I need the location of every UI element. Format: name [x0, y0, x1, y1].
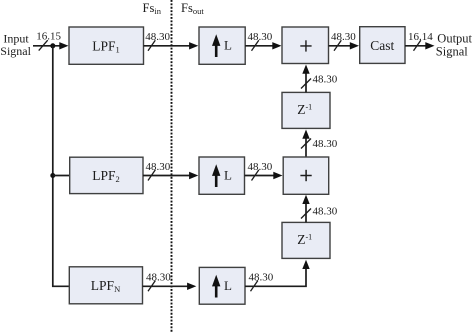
arrowhead up into A2 [302, 195, 309, 204]
bus slash after LPFN [148, 281, 155, 292]
node: junction at LPF2 branch [50, 173, 55, 178]
svg-text:L: L [224, 37, 232, 52]
LPF2 block [70, 157, 143, 193]
arrowhead into A1 [272, 42, 281, 49]
svg-text:48.30: 48.30 [146, 272, 171, 284]
upsampler U3 [199, 267, 245, 304]
wire: U1 to adder A1 [245, 45, 276, 47]
label: Output Signal [436, 31, 473, 58]
arrowhead into A2 [273, 172, 282, 179]
bus slash on input wire [39, 40, 48, 50]
delay Z2 [282, 222, 330, 258]
bus slash after A1 [334, 40, 341, 51]
upsampler U1 (up-arrow L) [199, 27, 245, 64]
label: Input Signal [0, 32, 31, 58]
arrowhead output [425, 42, 434, 49]
bus slash after LPF1 [148, 40, 155, 51]
arrowhead into U1 [189, 42, 198, 49]
wire: LPFN to upsampler U3 [143, 285, 192, 287]
svg-text:48.30: 48.30 [248, 31, 273, 43]
LPFN block [69, 267, 142, 304]
svg-text:Output: Output [437, 31, 472, 45]
node: input junction [50, 43, 55, 48]
wire: LPF1 to upsampler U1 [144, 45, 194, 47]
wire: Z1 up to adder A1 [305, 70, 307, 93]
adder A2 [283, 157, 329, 194]
arrowhead into LPF1 [59, 42, 68, 49]
arrowhead into U2 [189, 172, 198, 179]
svg-text:16.14: 16.14 [408, 31, 433, 43]
wire: Cast to output [405, 45, 430, 47]
bus slash A2-Z1 [301, 139, 311, 149]
svg-text:48.30: 48.30 [313, 138, 338, 150]
svg-text:16.15: 16.15 [36, 31, 61, 43]
Cast block [360, 27, 405, 64]
wire: Z2 up to adder A2 [305, 200, 307, 223]
arrowhead up into Z2 [302, 260, 309, 269]
svg-text:L: L [224, 278, 232, 293]
wire: LPF2 to upsampler U2 [143, 175, 193, 177]
LPF1 block [69, 27, 144, 64]
arrowhead into U3 [187, 283, 196, 290]
bus slash Z1-A1 [301, 79, 311, 89]
svg-text:48.30: 48.30 [248, 161, 273, 173]
svg-text:48.30: 48.30 [331, 31, 356, 43]
bus slash after U1 [252, 40, 259, 51]
bus slash after Cast [414, 40, 421, 51]
svg-text:48.30: 48.30 [146, 161, 171, 173]
bus slash Z2-A2 [301, 209, 311, 219]
svg-text:Cast: Cast [370, 38, 394, 53]
svg-text:48.30: 48.30 [145, 31, 170, 43]
wire: adder A2 up to Z1 [305, 135, 307, 158]
arrowhead up into Z1 [302, 130, 309, 139]
svg-text:L: L [224, 167, 232, 182]
svg-text:48.30: 48.30 [313, 74, 338, 86]
wire: A1 to Cast [329, 45, 355, 47]
bus slash after U3 [251, 281, 258, 292]
wire: junction to LPF2 [53, 175, 71, 177]
svg-text:Signal: Signal [436, 44, 468, 58]
svg-text:48.30: 48.30 [313, 206, 338, 218]
dashed rate-boundary line [171, 0, 173, 333]
wire: U2 to adder A2 [245, 175, 278, 177]
wire: input signal to LPF1 [33, 45, 64, 47]
adder A1 [282, 27, 329, 64]
wire: branch down from input junction to LPF N row [53, 46, 69, 286]
bus slash after LPF2 [148, 170, 155, 181]
arrowhead up into A1 [302, 65, 309, 74]
delay Z1 [282, 92, 330, 128]
svg-text:48.30: 48.30 [249, 272, 274, 284]
svg-text:Signal: Signal [0, 44, 31, 58]
bus slash after U2 [252, 170, 259, 181]
upsampler U2 [199, 157, 245, 194]
wire: U3 right then up into Z2 [245, 265, 306, 287]
arrowhead into Cast [350, 42, 359, 49]
